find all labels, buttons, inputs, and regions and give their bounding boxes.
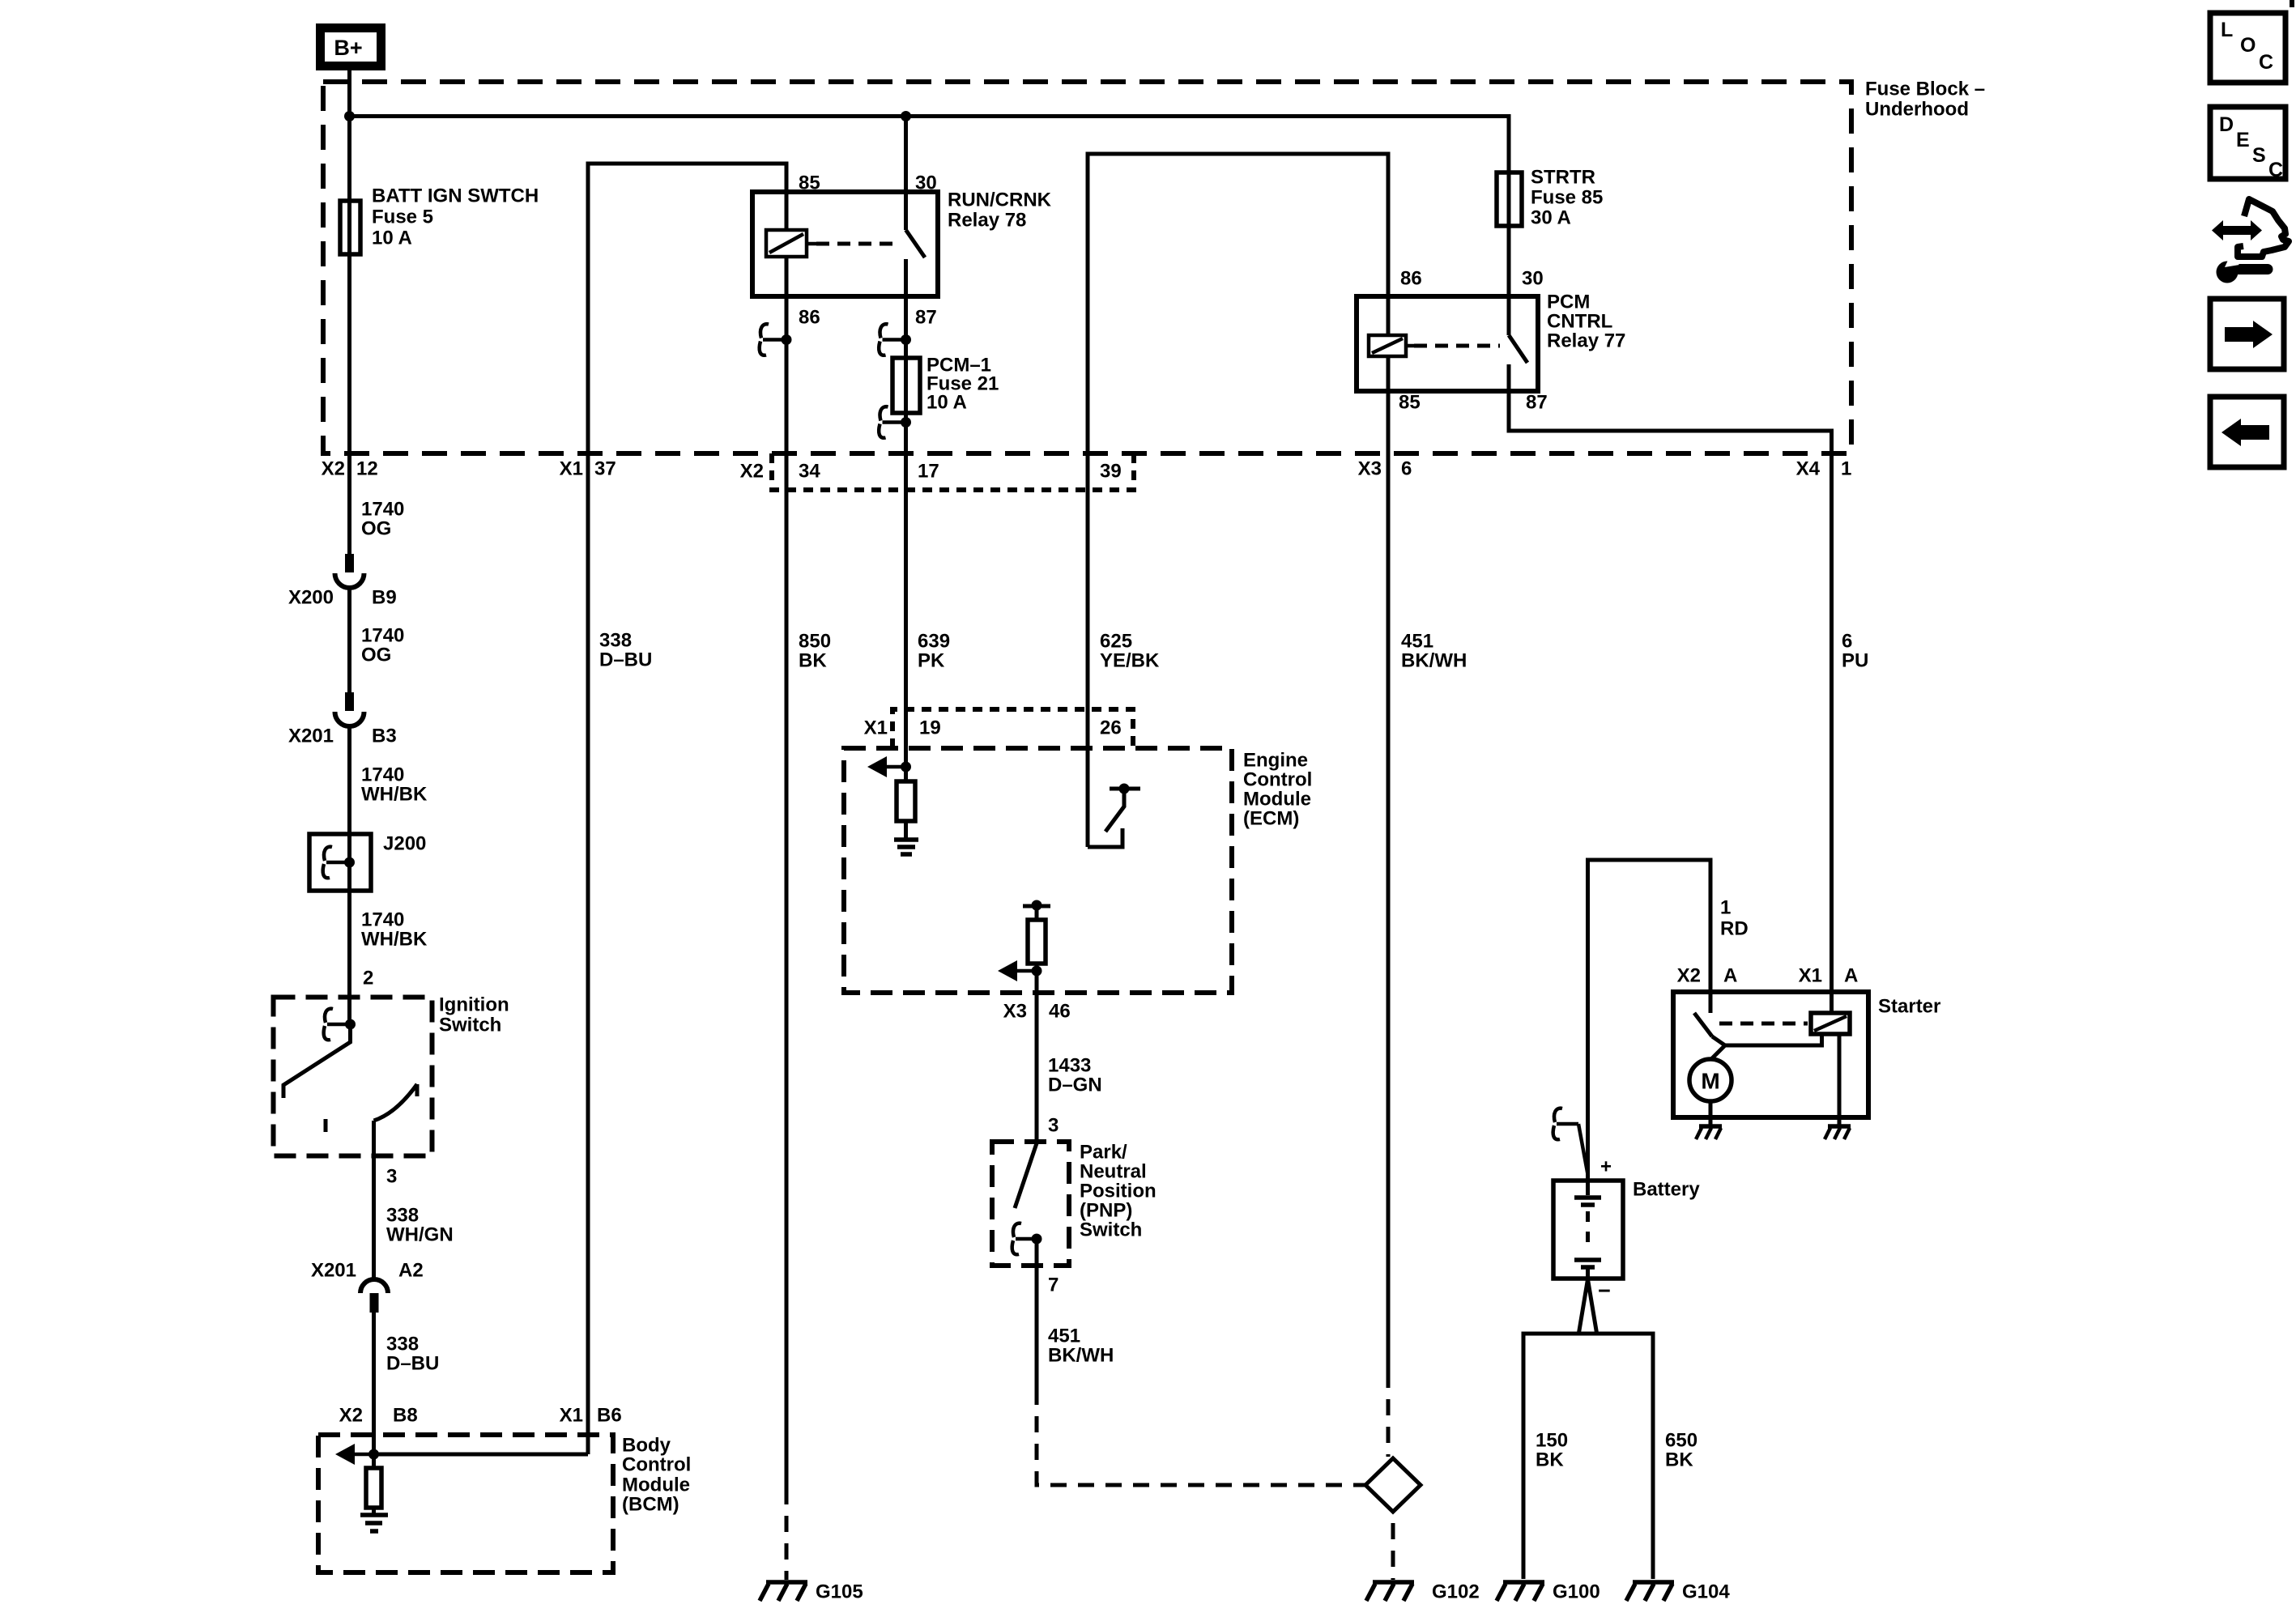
power node B+ [321, 28, 381, 66]
wire label 1 RD [1720, 897, 1749, 940]
wire: bus drop to STRTR fuse [1507, 114, 1511, 335]
ignition switch dashed box [274, 998, 432, 1156]
svg-text:X1: X1 [864, 717, 888, 739]
wire: ignition switch output [372, 1121, 376, 1279]
label Ignition Switch [439, 994, 509, 1036]
svg-text:10 A: 10 A [926, 392, 967, 414]
svg-text:X2: X2 [339, 1405, 363, 1427]
svg-text:338: 338 [386, 1205, 419, 1227]
ground G104 [1626, 1581, 1730, 1603]
svg-text:A2: A2 [398, 1260, 424, 1282]
relay 77 dashed actuator link [1414, 344, 1500, 348]
connector X201 A2 [311, 1260, 424, 1313]
svg-text:A: A [1844, 965, 1858, 987]
splice diamond [1365, 1458, 1421, 1512]
dashed wire to splice diamond [1387, 1388, 1391, 1457]
svg-text:6: 6 [1401, 458, 1412, 480]
dashed wire PNP to splice diamond [1037, 1405, 1365, 1485]
wire label 850 BK [799, 631, 831, 672]
svg-text:Neutral: Neutral [1080, 1161, 1147, 1183]
label Body Control Module (BCM) [622, 1435, 691, 1516]
label Engine Control Module (ECM) [1243, 750, 1312, 830]
wire label 1433 D-GN [1048, 1055, 1102, 1096]
starter motor ground [1696, 1126, 1722, 1139]
wire to BCM ground [372, 1508, 376, 1513]
svg-text:Starter: Starter [1878, 996, 1940, 1018]
wire label 1740 WH/BK [361, 909, 428, 951]
svg-text:X3: X3 [1358, 458, 1382, 480]
svg-text:D–BU: D–BU [386, 1353, 439, 1375]
battery negative V split [1578, 1279, 1597, 1335]
wire: relay77 pin85 down X3-6 as 451 BK/WH [1387, 391, 1391, 1388]
svg-text:6: 6 [1842, 631, 1852, 653]
fuse STRTR Fuse 85 [1497, 172, 1522, 226]
wire label 1740 OG [361, 499, 404, 540]
svg-text:M: M [1701, 1069, 1719, 1094]
svg-text:PU: PU [1842, 650, 1868, 672]
svg-text:E: E [2236, 129, 2250, 151]
wire: solenoid to case ground [1838, 1034, 1842, 1126]
svg-text:17: 17 [918, 461, 939, 483]
svg-text:86: 86 [1400, 268, 1422, 290]
svg-text:O: O [2240, 34, 2256, 57]
svg-text:X1: X1 [560, 1405, 583, 1427]
body control module dashed box [318, 1435, 613, 1572]
svg-text:WH/GN: WH/GN [386, 1224, 454, 1246]
svg-text:37: 37 [594, 458, 616, 480]
svg-text:BK: BK [1536, 1449, 1564, 1471]
wire label 1740 WH/BK [361, 764, 428, 806]
svg-text:B+: B+ [334, 36, 362, 60]
ground G105 [760, 1581, 863, 1603]
svg-text:3: 3 [1048, 1115, 1059, 1137]
svg-text:G100: G100 [1553, 1581, 1600, 1603]
connector X201 B3 [288, 692, 397, 747]
ground in ECM [894, 840, 918, 854]
pin label X2 | 12 [322, 458, 378, 480]
svg-text:OG: OG [361, 518, 391, 540]
svg-text:B3: B3 [372, 726, 397, 747]
svg-text:X2: X2 [1677, 965, 1701, 987]
wire label 451 BK/WH [1048, 1326, 1114, 1367]
battery [1553, 1156, 1700, 1304]
svg-text:30: 30 [915, 172, 937, 194]
svg-text:26: 26 [1100, 717, 1122, 739]
svg-text:G104: G104 [1682, 1581, 1730, 1603]
pin label X1 | 37 [560, 458, 616, 480]
svg-text:Fuse Block –: Fuse Block – [1865, 79, 1985, 100]
wire: X200 to X201 [347, 588, 351, 692]
junction node at relay 78 pin30 column [901, 111, 911, 121]
svg-text:Position: Position [1080, 1181, 1157, 1202]
svg-text:(PNP): (PNP) [1080, 1200, 1132, 1222]
svg-text:850: 850 [799, 631, 831, 653]
svg-text:PCM: PCM [1547, 291, 1590, 313]
starter dashed actuator link [1719, 1022, 1808, 1026]
svg-text:85: 85 [799, 172, 820, 194]
ignition switch contacts [283, 1009, 417, 1132]
svg-text:PK: PK [918, 650, 945, 672]
svg-text:BATT IGN SWTCH: BATT IGN SWTCH [372, 185, 539, 207]
pin label X3 | 46 [1003, 1001, 1071, 1023]
wire: PCM relay pin86 over and down as 625 YE/BK [1088, 154, 1388, 847]
junction node at B+ column [344, 111, 355, 121]
svg-text:34: 34 [799, 461, 820, 483]
label STRTR Fuse 85 30 A [1531, 167, 1603, 229]
splice clip on pin 86 wire [760, 324, 792, 355]
resistor in ECM [897, 781, 915, 821]
label Park/ Neutral Position (PNP) Switch [1080, 1142, 1157, 1241]
svg-text:B6: B6 [597, 1405, 622, 1427]
svg-text:OG: OG [361, 645, 391, 666]
starter motor M [1689, 1059, 1732, 1101]
svg-text:X201: X201 [288, 726, 334, 747]
connector X200 B9 [288, 554, 397, 609]
wire: relay77 pin87 over to X4-1 as 6 PU [1509, 391, 1832, 1013]
svg-text:Relay 77: Relay 77 [1547, 330, 1625, 352]
wire: 850 BK dashed tail to G105 [785, 1504, 789, 1580]
wire: battery positive feed [1588, 860, 1711, 1195]
svg-text:J200: J200 [383, 833, 426, 855]
svg-text:Park/: Park/ [1080, 1142, 1127, 1164]
svg-text:Body: Body [622, 1435, 671, 1457]
wire label 639 PK [918, 631, 950, 672]
sidebar icon forward arrow [2210, 299, 2284, 369]
svg-text:Relay 78: Relay 78 [948, 210, 1026, 232]
ECM connector dotted box X1 row [892, 709, 1133, 748]
PNP switch blade and contact [1012, 1143, 1042, 1405]
svg-text:12: 12 [356, 458, 378, 480]
svg-text:Switch: Switch [1080, 1219, 1142, 1241]
label BATT IGN SWTCH Fuse 5 10 A [372, 185, 539, 249]
fuse block - underhood dashed box [323, 82, 1851, 453]
svg-text:S: S [2252, 144, 2266, 167]
engine control module dashed box [844, 748, 1232, 993]
wire: B+ feed down through fuse 5 to connector X200 [347, 70, 351, 555]
svg-text:39: 39 [1100, 461, 1122, 483]
svg-text:Fuse 85: Fuse 85 [1531, 187, 1603, 209]
starter solenoid switch [1694, 1013, 1822, 1059]
splice J200 [309, 833, 426, 891]
svg-text:X2: X2 [740, 461, 764, 483]
park/neutral position switch dashed box [992, 1142, 1069, 1266]
sidebar icon LOC [2210, 13, 2285, 83]
svg-text:STRTR: STRTR [1531, 167, 1595, 189]
svg-text:YE/BK: YE/BK [1100, 650, 1160, 672]
wire: J200 to ignition switch [347, 891, 351, 1025]
relay PCM CNTRL Relay 77 [1357, 291, 1625, 392]
svg-text:(BCM): (BCM) [622, 1494, 679, 1516]
svg-text:87: 87 [1526, 392, 1548, 414]
ECM internal switch (pin 26) [1088, 784, 1140, 848]
svg-text:WH/BK: WH/BK [361, 929, 428, 951]
wire label 338 D-BU [386, 1334, 439, 1375]
svg-text:BK/WH: BK/WH [1401, 650, 1467, 672]
svg-text:BK: BK [1665, 1449, 1693, 1471]
pin label X4 | 1 [1796, 458, 1852, 480]
svg-text:1: 1 [1841, 458, 1851, 480]
svg-text:Module: Module [622, 1474, 690, 1496]
svg-text:86: 86 [799, 307, 820, 329]
svg-text:Switch: Switch [439, 1015, 501, 1036]
relay RUN/CRNK Relay 78 [752, 189, 1052, 297]
svg-text:150: 150 [1536, 1430, 1568, 1452]
svg-text:1: 1 [1720, 897, 1731, 919]
corner mark [2290, 0, 2294, 7]
wire: relay78 pin87 through PCM-1 fuse down to ECM X1-19 [904, 296, 908, 781]
svg-text:A: A [1723, 965, 1737, 987]
svg-text:G105: G105 [816, 1581, 863, 1603]
svg-text:338: 338 [386, 1334, 419, 1355]
fuse BATT IGN SWTCH Fuse 5 [340, 201, 360, 254]
svg-text:C: C [2268, 159, 2283, 181]
svg-text:G102: G102 [1432, 1581, 1480, 1603]
ECM pin46 node with resistor and arrow [998, 900, 1050, 1144]
svg-text:D: D [2219, 113, 2234, 136]
svg-text:30 A: 30 A [1531, 207, 1571, 229]
svg-text:85: 85 [1399, 392, 1421, 414]
svg-text:X2: X2 [322, 458, 345, 480]
pin label X1 | B6 [560, 1405, 622, 1427]
sidebar icon back arrow [2210, 397, 2284, 467]
sidebar icon both-directions hand with wrench [2212, 199, 2289, 283]
pin label X1 | A (starter) [1799, 965, 1859, 987]
pin label X1 | 19 [864, 717, 941, 739]
wire: B+ bus horizontal [350, 114, 1510, 118]
BCM internal node and arrow [335, 1444, 379, 1465]
svg-text:Fuse 5: Fuse 5 [372, 206, 433, 228]
svg-text:7: 7 [1048, 1274, 1059, 1296]
svg-text:625: 625 [1100, 631, 1132, 653]
svg-text:451: 451 [1401, 631, 1433, 653]
svg-text:+: + [1600, 1156, 1612, 1178]
svg-text:19: 19 [919, 717, 941, 739]
svg-text:L: L [2221, 19, 2233, 41]
svg-text:1433: 1433 [1048, 1055, 1091, 1077]
wire: motor to case ground [1709, 1101, 1713, 1126]
dashed wire diamond to G102 [1391, 1512, 1395, 1580]
svg-text:WH/BK: WH/BK [361, 784, 428, 806]
label PCM-1 Fuse 21 10 A [926, 355, 999, 414]
svg-text:Control: Control [622, 1454, 691, 1476]
fuse PCM-1 Fuse 21 [892, 358, 920, 413]
svg-text:3: 3 [386, 1166, 397, 1188]
svg-text:650: 650 [1665, 1430, 1698, 1452]
wire: X201 to J200 [347, 726, 351, 834]
svg-text:X3: X3 [1003, 1001, 1027, 1023]
wire label 1740 OG [361, 625, 404, 666]
splice clip below fuse 21 [879, 406, 911, 438]
wire label 338 WH/GN [386, 1205, 454, 1246]
wire label 6 PU [1842, 631, 1868, 672]
ground G100 [1497, 1581, 1600, 1603]
svg-text:2: 2 [363, 968, 373, 989]
pin label X2 | B8 [339, 1405, 418, 1427]
svg-text:Module: Module [1243, 789, 1311, 811]
ECM pin19 node and arrow [867, 756, 911, 777]
pin label X2 | A (starter) [1677, 965, 1738, 987]
wire label 625 YE/BK [1100, 631, 1160, 672]
svg-text:CNTRL: CNTRL [1547, 311, 1612, 333]
svg-text:B9: B9 [372, 587, 397, 609]
svg-text:−: − [1598, 1279, 1611, 1303]
label Fuse Block - Underhood [1865, 79, 1985, 121]
svg-text:30: 30 [1522, 268, 1544, 290]
wire: relay78 pin85 over to column X1-37 and down to BCM X1-B6 [588, 164, 786, 1454]
svg-text:639: 639 [918, 631, 950, 653]
svg-text:1740: 1740 [361, 625, 404, 647]
resistor in BCM [366, 1468, 381, 1508]
splice clip on battery feed [1553, 1108, 1588, 1177]
svg-text:X200: X200 [288, 587, 334, 609]
ground G102 [1366, 1581, 1480, 1603]
pin label X3 | 6 [1358, 458, 1412, 480]
svg-text:D–GN: D–GN [1048, 1074, 1102, 1096]
svg-text:X201: X201 [311, 1260, 356, 1282]
svg-text:Engine: Engine [1243, 750, 1308, 772]
wire: relay78 pin86 down to X2-34 and 850 BK to G105 [785, 296, 789, 1504]
relay 78 switch [906, 117, 926, 297]
svg-text:BK: BK [799, 650, 827, 672]
svg-text:10 A: 10 A [372, 228, 412, 249]
svg-text:D–BU: D–BU [599, 649, 652, 671]
svg-text:(ECM): (ECM) [1243, 808, 1299, 830]
svg-text:Control: Control [1243, 769, 1312, 791]
svg-text:X1: X1 [560, 458, 583, 480]
relay 77 switch [1509, 335, 1527, 391]
wire label 150 BK [1536, 1430, 1568, 1471]
svg-text:1740: 1740 [361, 909, 404, 931]
wire: BCM internal horizontal [374, 1453, 589, 1457]
svg-text:87: 87 [915, 307, 937, 329]
wire label 451 BK/WH [1401, 631, 1467, 672]
svg-text:X1: X1 [1799, 965, 1822, 987]
svg-text:BK/WH: BK/WH [1048, 1345, 1114, 1367]
svg-text:B8: B8 [393, 1405, 418, 1427]
svg-text:1740: 1740 [361, 499, 404, 521]
starter box [1673, 992, 1940, 1117]
svg-text:Battery: Battery [1633, 1179, 1700, 1201]
starter solenoid ground [1825, 1126, 1851, 1139]
ground in BCM [360, 1515, 388, 1531]
svg-text:Underhood: Underhood [1865, 99, 1969, 121]
wire: A2 to BCM X2-B8 [372, 1313, 376, 1468]
svg-text:451: 451 [1048, 1326, 1080, 1347]
splice clip above fuse 21 [879, 324, 911, 355]
starter solenoid coil [1811, 1013, 1850, 1034]
relay 78 dashed actuator link [816, 242, 901, 246]
svg-text:Ignition: Ignition [439, 994, 509, 1016]
svg-text:RD: RD [1720, 918, 1749, 940]
svg-text:RUN/CRNK: RUN/CRNK [948, 189, 1052, 211]
wire to ECM ground [904, 821, 908, 839]
svg-text:1740: 1740 [361, 764, 404, 786]
svg-text:C: C [2259, 51, 2273, 74]
relay 77 coil [1369, 296, 1414, 391]
sidebar icon DESC [2210, 107, 2285, 181]
relay 78 coil [766, 192, 816, 296]
svg-text:338: 338 [599, 630, 632, 652]
wire label 650 BK [1665, 1430, 1698, 1471]
wire: ground loop 150 BK / 650 BK [1523, 1334, 1653, 1579]
svg-text:X4: X4 [1796, 458, 1821, 480]
wire label 338 D-BU [599, 630, 652, 671]
svg-text:46: 46 [1049, 1001, 1071, 1023]
connector row dotted box under fuse block [772, 453, 1134, 490]
